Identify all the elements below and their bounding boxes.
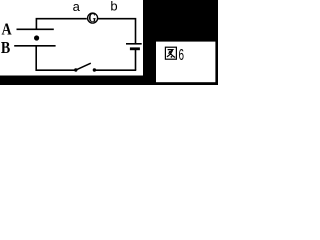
svg-text:a: a — [73, 0, 81, 14]
svg-text:b: b — [110, 0, 117, 14]
svg-text:G: G — [88, 12, 96, 25]
svg-text:B: B — [1, 39, 10, 57]
svg-text:A: A — [2, 21, 12, 39]
svg-text:6: 6 — [178, 46, 184, 64]
